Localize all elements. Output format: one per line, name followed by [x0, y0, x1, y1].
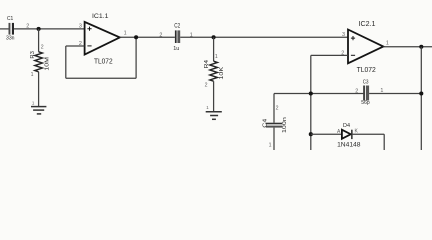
- svg-text:K: K: [355, 128, 359, 134]
- svg-text:2: 2: [205, 82, 208, 88]
- plus glyph IC2: [351, 36, 355, 40]
- svg-text:2: 2: [355, 88, 358, 94]
- svg-text:1: 1: [215, 54, 218, 60]
- svg-text:1: 1: [269, 142, 272, 148]
- node feedback tap: [134, 35, 138, 39]
- node C3 row at output vertical: [419, 91, 423, 95]
- wire inverting net vertical: [310, 55, 312, 150]
- svg-text:10M: 10M: [45, 57, 51, 71]
- svg-text:C3: C3: [363, 79, 369, 85]
- ground under R3: [31, 107, 46, 114]
- wire input lead left of C1: [0, 28, 9, 30]
- wire C2 to IC2 noninverting input: [180, 36, 348, 38]
- svg-text:100n: 100n: [282, 117, 288, 133]
- wire IC1 inverting input: [66, 45, 85, 47]
- svg-text:3: 3: [342, 32, 345, 38]
- svg-text:D4: D4: [343, 123, 350, 129]
- svg-text:R3: R3: [30, 51, 36, 59]
- svg-text:2: 2: [276, 105, 279, 111]
- capacitor C4: [266, 123, 282, 128]
- wire D4 down vertical: [383, 134, 385, 150]
- svg-text:2: 2: [26, 24, 29, 30]
- svg-text:1u: 1u: [173, 46, 179, 52]
- svg-text:IC1.1: IC1.1: [92, 13, 109, 20]
- capacitor C2: [175, 30, 180, 43]
- node D4 row at inverting net: [309, 132, 313, 136]
- op-amp IC2: [348, 30, 383, 64]
- svg-text:1: 1: [31, 72, 34, 78]
- svg-text:1: 1: [32, 100, 35, 105]
- svg-text:C1: C1: [7, 16, 13, 22]
- svg-text:1: 1: [206, 105, 209, 110]
- svg-text:2: 2: [41, 44, 44, 50]
- wire feedback right vertical: [135, 37, 137, 78]
- wire C4 bottom vertical: [273, 128, 275, 150]
- svg-text:33n: 33n: [6, 36, 15, 42]
- resistor R4: [210, 61, 218, 81]
- minus glyph IC1: [87, 45, 91, 47]
- wire R4 to ground: [213, 81, 215, 111]
- wire output down vertical: [420, 47, 422, 150]
- wire IC2 inverting input: [311, 54, 348, 56]
- wire IC1 output: [120, 36, 175, 38]
- svg-text:2: 2: [159, 33, 162, 39]
- svg-text:C2: C2: [174, 24, 181, 30]
- node output junction: [419, 45, 423, 49]
- capacitor C3: [363, 86, 369, 101]
- op-amp IC1: [85, 22, 120, 55]
- wire C3 to output vertical: [369, 93, 421, 95]
- minus glyph IC2: [351, 54, 355, 56]
- wire junction down to R4: [213, 37, 215, 61]
- plus glyph IC1: [87, 27, 91, 31]
- wire C4 top vertical: [273, 94, 275, 123]
- wire junction down to R3: [38, 29, 40, 52]
- svg-text:IC2.1: IC2.1: [359, 21, 376, 28]
- capacitor C1: [9, 23, 15, 35]
- wire R3 to ground: [38, 72, 40, 107]
- svg-text:R4: R4: [204, 60, 210, 69]
- wire D4 row left: [311, 133, 342, 135]
- node C3 row at inverting net: [309, 91, 313, 95]
- svg-text:C4: C4: [263, 119, 269, 128]
- svg-text:1N4148: 1N4148: [337, 141, 361, 148]
- resistor R3: [35, 52, 43, 72]
- svg-text:3: 3: [79, 23, 82, 29]
- wire IC2 output: [383, 46, 432, 48]
- svg-text:56p: 56p: [361, 100, 369, 106]
- svg-text:10K: 10K: [219, 67, 225, 80]
- wire feedback bottom: [66, 77, 136, 79]
- wire D4 right: [353, 133, 385, 135]
- node junction at R3 tap: [37, 27, 41, 31]
- diode D4: [342, 130, 353, 139]
- svg-text:1: 1: [124, 31, 127, 37]
- wire feedback left vertical: [65, 46, 67, 78]
- wire C1 to IC1 noninverting input: [14, 28, 85, 30]
- node R4 tap: [212, 35, 216, 39]
- svg-text:1: 1: [386, 40, 389, 46]
- svg-text:TL072: TL072: [94, 56, 113, 65]
- ground under R4: [206, 112, 222, 120]
- wire C3 row left: [274, 93, 363, 95]
- svg-text:TL072: TL072: [357, 65, 376, 74]
